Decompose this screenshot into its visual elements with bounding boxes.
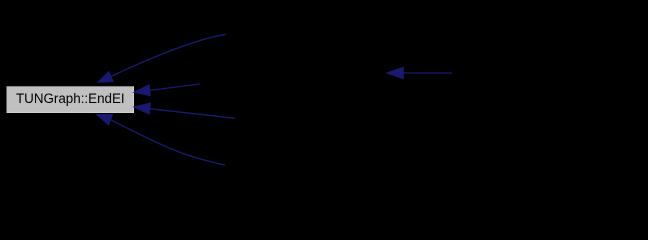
node TUNGraph::EndEI (current node, grey)	[7, 86, 134, 113]
svg-text:TUNGraph::EndEI: TUNGraph::EndEI	[16, 91, 125, 106]
arrowhead D -> EndEI	[97, 115, 113, 125]
edge E -> B (horizontal arrow)	[402, 72, 452, 74]
svg-text:caller D: caller D	[270, 156, 321, 173]
svg-text:caller E: caller E	[520, 64, 570, 81]
svg-text:caller C: caller C	[279, 109, 330, 126]
svg-text:caller B: caller B	[268, 64, 318, 81]
edge D -> EndEI (bottom curve)	[111, 120, 226, 165]
svg-text:caller A: caller A	[276, 25, 325, 42]
hidden node A (caller, top)	[226, 21, 376, 47]
arrowhead A -> EndEI	[98, 72, 113, 83]
arrowhead E -> B	[387, 67, 404, 78]
hidden node B (caller, middle)	[200, 60, 386, 86]
arrowhead C -> EndEI	[134, 103, 151, 114]
hidden node C (caller)	[234, 105, 374, 131]
arrowhead B -> EndEI	[134, 85, 151, 96]
edge A -> EndEI (top curve)	[111, 34, 226, 76]
edge B -> EndEI (straight)	[150, 84, 201, 90]
hidden node E (caller of B, right)	[455, 60, 635, 86]
hidden node D (caller, bottom)	[225, 152, 365, 178]
edge C -> EndEI (straight)	[150, 109, 235, 119]
